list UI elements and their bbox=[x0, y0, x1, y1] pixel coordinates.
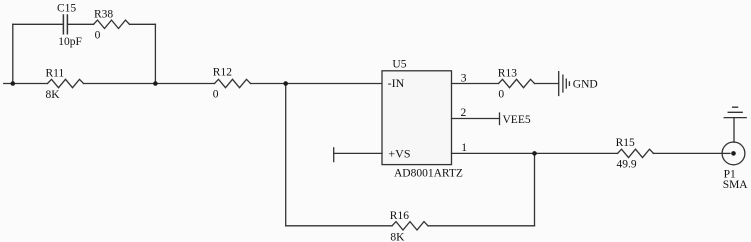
earth ground (P1 shield) bbox=[724, 107, 746, 117]
connector P1 center pin dot bbox=[731, 151, 736, 156]
power terminal bar VEE5 bbox=[499, 113, 501, 125]
svg-text:8K: 8K bbox=[390, 232, 405, 242]
wire main rail to -IN pin bbox=[251, 83, 383, 85]
wire C15 to R38 bbox=[67, 23, 93, 25]
wire pin 1 stub to R15 bbox=[452, 152, 618, 154]
wire top rail to C15 bbox=[13, 23, 64, 25]
svg-text:2: 2 bbox=[461, 107, 467, 119]
svg-text:R38: R38 bbox=[94, 8, 113, 20]
connector P1 SMA outer ring bbox=[722, 142, 745, 165]
wire main rail left stub bbox=[4, 83, 48, 85]
svg-text:0: 0 bbox=[213, 89, 219, 101]
svg-text:R12: R12 bbox=[213, 67, 232, 79]
resistor R13 body bbox=[499, 79, 535, 87]
wire pin 2 stub bbox=[452, 118, 500, 120]
svg-text:U5: U5 bbox=[392, 59, 406, 71]
wire +VS stub bbox=[334, 152, 382, 154]
svg-text:0: 0 bbox=[498, 89, 504, 101]
wire feedback left vertical bbox=[285, 84, 287, 226]
svg-text:0: 0 bbox=[95, 30, 101, 42]
resistor R12 body bbox=[215, 79, 251, 87]
svg-text:R13: R13 bbox=[498, 67, 517, 79]
svg-text:SMA: SMA bbox=[723, 179, 749, 191]
svg-text:+VS: +VS bbox=[388, 146, 410, 160]
resistor R16 body bbox=[392, 222, 428, 230]
svg-text:R11: R11 bbox=[46, 68, 65, 80]
ground GND symbol bars bbox=[559, 72, 570, 96]
junction node at R11 right bbox=[153, 81, 158, 86]
junction node at R11 left bbox=[11, 81, 16, 86]
resistor R15 body bbox=[618, 149, 654, 157]
terminal bar at +VS stub bbox=[333, 148, 335, 162]
wire P1 shield stem bbox=[733, 118, 735, 143]
wire R15 to P1 bbox=[654, 152, 723, 154]
wire feedback bottom right bbox=[428, 225, 535, 227]
resistor R38 body bbox=[94, 20, 130, 28]
resistor R11 body bbox=[48, 79, 84, 87]
wire top loop left vertical bbox=[12, 24, 14, 83]
wire feedback bottom left bbox=[286, 225, 392, 227]
svg-text:49.9: 49.9 bbox=[617, 158, 637, 170]
wire R38 to top loop right corner bbox=[130, 23, 156, 25]
wire pin 3 stub bbox=[452, 83, 499, 85]
capacitor C15 plates bbox=[63, 15, 67, 34]
svg-text:VEE5: VEE5 bbox=[503, 114, 531, 126]
junction node at pin 1 / R16 bbox=[532, 151, 537, 156]
svg-text:C15: C15 bbox=[57, 2, 76, 14]
svg-text:8K: 8K bbox=[46, 89, 61, 101]
junction node at R12 right bbox=[283, 81, 288, 86]
wire main rail middle bbox=[84, 83, 215, 85]
svg-text:AD8001ARTZ: AD8001ARTZ bbox=[394, 167, 463, 179]
wire top loop right vertical bbox=[154, 24, 156, 83]
svg-text:-IN: -IN bbox=[388, 76, 405, 90]
svg-text:3: 3 bbox=[461, 72, 467, 84]
svg-text:GND: GND bbox=[573, 79, 598, 91]
wire R13 to GND bbox=[535, 83, 559, 85]
connector P1 center pin lead bbox=[722, 152, 730, 154]
svg-text:10pF: 10pF bbox=[58, 36, 82, 48]
wire feedback right vertical bbox=[534, 153, 536, 225]
op-amp U5 body bbox=[382, 71, 452, 165]
svg-text:R15: R15 bbox=[616, 137, 635, 149]
svg-text:1: 1 bbox=[461, 142, 467, 154]
svg-text:R16: R16 bbox=[390, 210, 409, 222]
